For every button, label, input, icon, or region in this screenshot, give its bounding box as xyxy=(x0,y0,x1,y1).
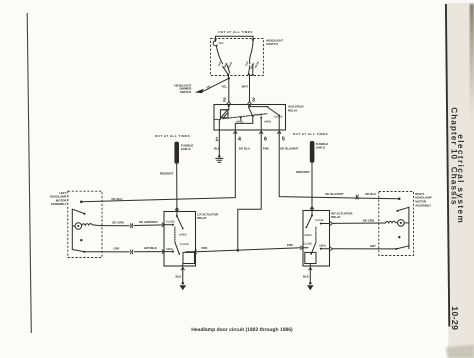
junction node under pole A xyxy=(228,77,230,79)
L/F relay close contact 2 xyxy=(164,251,173,253)
svg-text:OPEN: OPEN xyxy=(319,245,326,248)
svg-text:RELAY: RELAY xyxy=(331,215,341,219)
fusible link B bar xyxy=(174,142,179,164)
right motor mid node xyxy=(398,236,400,238)
ground G2 xyxy=(182,282,185,285)
svg-text:GRY/BLK: GRY/BLK xyxy=(144,246,158,250)
svg-text:LINK B: LINK B xyxy=(181,147,191,151)
svg-text:DK BLU/WHT: DK BLU/WHT xyxy=(280,147,299,151)
pin 4 connector xyxy=(233,131,237,134)
wire pin 6 pnk jog down to pnk net xyxy=(238,131,261,250)
svg-text:HOT AT ALL TIMES: HOT AT ALL TIMES xyxy=(155,134,190,138)
svg-text:ASSEMBLY: ASSEMBLY xyxy=(51,202,67,206)
svg-text:ASSEMBLY: ASSEMBLY xyxy=(415,203,431,207)
connector into relay (dk grn/wht) xyxy=(162,223,164,227)
coil armature dashed linkage xyxy=(214,118,220,120)
right motor M2 xyxy=(385,221,397,223)
relay top bus from pin 3 xyxy=(250,106,269,107)
L/F relay blade 1 xyxy=(177,216,183,228)
relay contact blade 2 xyxy=(267,107,279,116)
wire gry from motor xyxy=(84,251,129,253)
svg-text:PNK: PNK xyxy=(263,147,270,151)
svg-text:CLOSE: CLOSE xyxy=(166,220,175,223)
left motor switch bar xyxy=(71,209,73,249)
contact 2 to pin 5 wire xyxy=(278,116,280,131)
pin 6 connector xyxy=(259,131,263,134)
svg-text:5: 5 xyxy=(282,137,285,143)
feed arrowhead right xyxy=(252,39,255,42)
svg-text:RED/WHT: RED/WHT xyxy=(296,170,310,174)
wire dk grn from R/F relay xyxy=(330,221,333,225)
svg-text:CLOSE: CLOSE xyxy=(315,219,324,222)
pnk net junction node xyxy=(237,249,240,252)
L/F relay ground pin wire xyxy=(182,264,184,283)
svg-text:PNK: PNK xyxy=(287,243,294,247)
R/F relay top node xyxy=(311,214,313,216)
node pin 2 inside xyxy=(228,105,230,107)
svg-text:LINK E: LINK E xyxy=(316,146,326,150)
svg-text:DK BLU: DK BLU xyxy=(112,197,123,201)
wire pole B down to pin 3 xyxy=(249,75,251,101)
ground G1 symbol xyxy=(216,157,223,159)
wire fusible link B down to L/F actuator relay xyxy=(176,164,178,212)
svg-text:1: 1 xyxy=(215,137,218,143)
svg-text:3: 3 xyxy=(252,97,255,103)
wire fusible link E down to R/F actuator relay xyxy=(311,163,313,211)
R/F relay linkage dashed xyxy=(315,227,317,242)
L/F relay close contact 1 xyxy=(164,224,173,226)
open contact 2 to pin 6 xyxy=(260,116,262,118)
headlight switch dashed box xyxy=(211,39,264,76)
R/F relay feed connector xyxy=(310,207,314,210)
svg-text:OPEN: OPEN xyxy=(179,234,186,237)
right motor switch bar xyxy=(408,207,410,249)
R/F relay coil xyxy=(303,247,308,249)
left motor assembly dashed box xyxy=(68,191,102,257)
right motor dk blu node xyxy=(398,198,401,201)
pin 5 connector xyxy=(277,131,281,134)
fusible link E bar xyxy=(310,141,315,163)
svg-text:OPEN: OPEN xyxy=(236,121,243,124)
right motor blade down xyxy=(397,246,409,249)
switch pole A hook xyxy=(213,41,217,46)
wire junction down to pin 2 xyxy=(228,78,230,101)
pole B contact dots xyxy=(248,73,250,75)
connector pair dk grn xyxy=(129,223,132,228)
R/F relay close contact 2 xyxy=(321,248,329,250)
left page edge line xyxy=(27,13,31,333)
L/F relay coil xyxy=(186,251,196,253)
wire pin 5 to right motor xyxy=(279,131,399,199)
pin 3 connector xyxy=(248,102,252,105)
svg-text:RELAY: RELAY xyxy=(197,216,207,220)
pin 2 connector xyxy=(227,102,231,105)
node pin 3 inside xyxy=(248,105,250,107)
relay coil K1 xyxy=(221,106,229,110)
svg-text:SWITCH: SWITCH xyxy=(266,42,277,46)
svg-text:BLK: BLK xyxy=(303,274,310,278)
svg-text:OPEN: OPEN xyxy=(264,121,271,124)
svg-text:OPEN: OPEN xyxy=(166,248,173,251)
switch pole B wiper blade xyxy=(249,41,253,64)
wire gry/blk to relay xyxy=(134,251,164,253)
svg-text:DK GRN/WHT: DK GRN/WHT xyxy=(139,220,158,224)
pole B contact stub HEAD xyxy=(252,64,254,73)
svg-text:2: 2 xyxy=(223,97,226,103)
connector into relay (gry/blk) xyxy=(162,249,164,253)
svg-text:electrical system: electrical system xyxy=(456,134,466,224)
sidebar dark spine line xyxy=(446,4,449,327)
svg-text:DK GRN: DK GRN xyxy=(363,219,374,223)
open contact 1 xyxy=(240,116,242,118)
svg-text:GRY: GRY xyxy=(370,244,376,248)
svg-text:CLOSE: CLOSE xyxy=(274,116,283,119)
wire dk grn from motor xyxy=(102,225,129,227)
svg-text:YEL: YEL xyxy=(221,85,227,89)
svg-text:HOT AT ALL TIMES: HOT AT ALL TIMES xyxy=(218,30,252,34)
svg-text:GRY: GRY xyxy=(114,246,120,250)
right motor assembly dashed box xyxy=(379,192,414,256)
svg-text:DK BLU: DK BLU xyxy=(365,192,376,196)
left motor dk blu node xyxy=(80,201,83,204)
svg-text:PNK: PNK xyxy=(201,246,208,250)
left motor mid node xyxy=(80,239,82,241)
wire junction to headlight dimmer switch xyxy=(203,78,229,91)
wire pin 4 dk blu to left motor xyxy=(81,131,235,202)
contact 1 to pin 4 wire xyxy=(235,116,253,130)
svg-text:10-29: 10-29 xyxy=(450,306,460,330)
svg-text:OPEN: OPEN xyxy=(304,234,311,237)
svg-text:CLOSE: CLOSE xyxy=(180,243,189,246)
dimmer arrowhead xyxy=(195,89,204,93)
isolation relay box xyxy=(214,105,286,131)
R/F relay blade 2 xyxy=(311,242,316,253)
wire dk grn/wht to relay xyxy=(134,224,164,227)
svg-text:HOT AT ALL TIMES: HOT AT ALL TIMES xyxy=(293,132,328,136)
svg-text:SWITCH: SWITCH xyxy=(180,90,191,94)
R/F relay blade 1 xyxy=(307,216,313,228)
L/F actuator relay box xyxy=(164,212,196,267)
svg-text:BLK: BLK xyxy=(214,147,221,151)
right motor blade up xyxy=(398,207,409,210)
svg-text:BLK: BLK xyxy=(175,274,182,278)
connector pair dk blu/wht xyxy=(355,195,358,200)
relay contact blade 1 xyxy=(248,107,252,116)
L/F relay top node xyxy=(176,215,178,217)
switch pole A wiper blade xyxy=(216,46,222,64)
R/F actuator relay box xyxy=(303,211,330,267)
wire pole A to junction xyxy=(227,75,230,79)
svg-text:RELAY: RELAY xyxy=(288,108,298,112)
ground G3 xyxy=(309,282,312,285)
pole A contact stub PARK xyxy=(223,66,228,74)
svg-text:DK BLU/WHT: DK BLU/WHT xyxy=(325,192,344,196)
left motor blade up xyxy=(72,209,84,213)
connector pnk at R/F relay xyxy=(300,246,303,250)
R/F relay close contact 1 xyxy=(321,223,329,225)
connector pair gry xyxy=(129,250,132,255)
ground G1 node dot xyxy=(218,155,221,158)
L/F relay feed connector xyxy=(175,208,179,211)
feed arrowhead left xyxy=(214,39,217,42)
svg-text:OFF: OFF xyxy=(219,42,224,45)
svg-text:CLOSE: CLOSE xyxy=(254,113,263,116)
L/F ground connector xyxy=(181,268,185,270)
wire gry from R/F relay xyxy=(330,247,333,251)
feed bracket wire xyxy=(216,36,254,41)
svg-text:DK BLU: DK BLU xyxy=(239,147,250,151)
L/F relay blade 2 xyxy=(175,242,179,253)
left motor blade down xyxy=(72,250,84,252)
pin 1 wire xyxy=(218,130,220,155)
connector pnk at L/F relay xyxy=(194,250,197,254)
svg-text:WHT: WHT xyxy=(242,85,249,89)
svg-text:DK GRN: DK GRN xyxy=(112,220,123,224)
pnk net wire between relays xyxy=(197,248,301,252)
R/F ground connector xyxy=(309,268,313,270)
svg-text:Headlamp door circuit (1982 th: Headlamp door circuit (1982 through 1986… xyxy=(191,327,293,333)
svg-text:CLOSE: CLOSE xyxy=(303,243,312,246)
sidebar page-edge strip xyxy=(446,0,474,358)
R/F relay ground pin wire xyxy=(309,264,311,283)
svg-text:6: 6 xyxy=(264,137,267,143)
pole A contact stub HEAD xyxy=(227,64,230,73)
L/F relay linkage dashed xyxy=(174,227,176,242)
pole A contact dot xyxy=(227,73,229,75)
pole B contact stub PARK xyxy=(249,66,250,74)
left motor M1 xyxy=(75,223,82,230)
svg-text:RED/WHT: RED/WHT xyxy=(160,172,174,176)
